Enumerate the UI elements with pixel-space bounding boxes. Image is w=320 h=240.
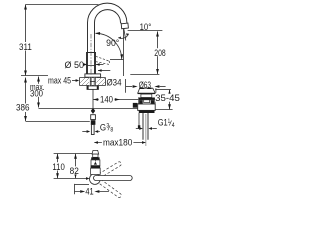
svg-text:90°: 90° xyxy=(106,38,119,49)
svg-text:max 45: max 45 xyxy=(48,75,71,86)
svg-text:208: 208 xyxy=(154,48,165,59)
svg-text:G1: G1 xyxy=(158,118,168,129)
svg-text:max180: max180 xyxy=(103,137,132,148)
svg-text:Ø63: Ø63 xyxy=(139,80,151,90)
svg-text:10°: 10° xyxy=(140,22,152,33)
svg-text:386: 386 xyxy=(16,103,30,114)
svg-text:35-45: 35-45 xyxy=(155,93,180,104)
svg-text:Ø34: Ø34 xyxy=(107,78,122,89)
svg-text:300: 300 xyxy=(30,89,43,100)
svg-text:Ø 50: Ø 50 xyxy=(65,60,85,71)
svg-text:311: 311 xyxy=(19,42,32,53)
svg-text:41: 41 xyxy=(85,187,93,198)
svg-text:82: 82 xyxy=(70,166,79,177)
svg-text:110: 110 xyxy=(52,162,64,173)
svg-text:140: 140 xyxy=(100,94,113,105)
svg-text:G: G xyxy=(100,123,106,134)
